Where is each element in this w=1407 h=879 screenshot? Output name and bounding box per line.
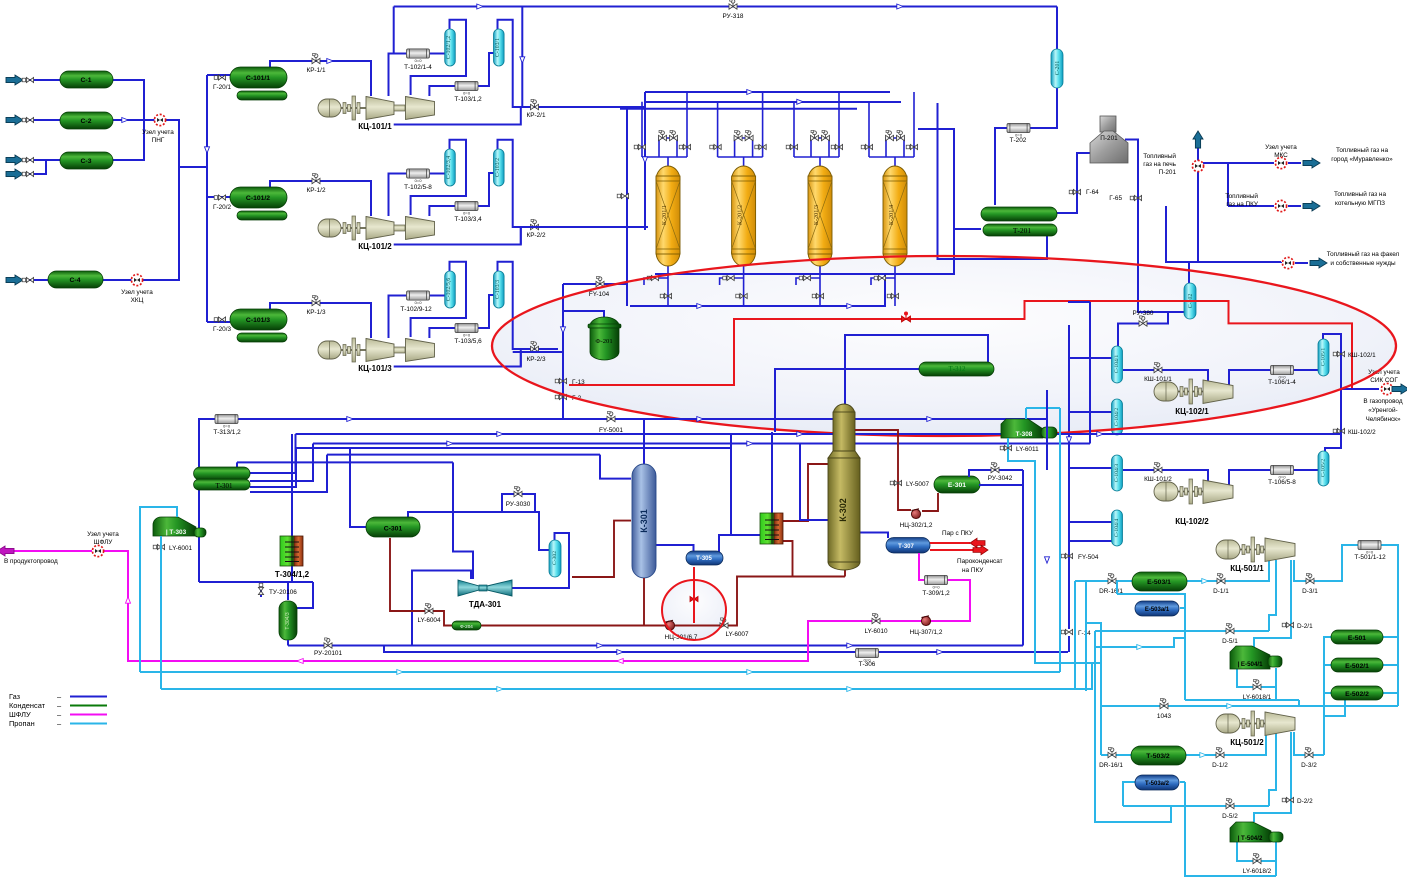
wire: Т-202 to Т-201 bbox=[995, 128, 1007, 205]
compressor КЦ-501/1 bbox=[1216, 537, 1295, 562]
wire: К-201 bottom bus bbox=[630, 129, 954, 306]
svg-text:Т-501/1-12: Т-501/1-12 bbox=[1354, 554, 1386, 561]
valve Г-2 bbox=[555, 394, 566, 399]
wire: steam from ПКУ (red) bbox=[930, 542, 970, 544]
svg-text:D-1/2: D-1/2 bbox=[1212, 762, 1228, 769]
vessel С-105/2 bbox=[1318, 451, 1329, 486]
svg-text:С-1: С-1 bbox=[81, 77, 92, 84]
wire: Е-501/Е-502 right collector bbox=[1383, 637, 1398, 693]
wire: long header L1 bbox=[198, 419, 1047, 582]
svg-text:С-101/3: С-101/3 bbox=[246, 317, 270, 324]
wire: C-4 outlet through ХКЦ meter bbox=[103, 167, 179, 280]
wire: С-202 bottom to РУ-380 bbox=[1118, 312, 1168, 346]
svg-text:| Е-504/1: | Е-504/1 bbox=[1237, 661, 1263, 668]
pump НЦ-302/1,2 bbox=[911, 509, 920, 519]
valve Г-14 bbox=[1061, 629, 1072, 634]
wire: ШФЛУ magenta run bbox=[12, 551, 970, 661]
heat exchanger Т-501/1-12 bbox=[1358, 540, 1381, 554]
check valve 3 bbox=[22, 157, 33, 162]
adsorber К-201/4 valve manifold bbox=[869, 92, 914, 167]
valve LY-6001 bbox=[153, 544, 164, 549]
vessel С-202 bbox=[1184, 283, 1196, 319]
svg-text:Т-102/5-8: Т-102/5-8 bbox=[404, 184, 432, 191]
wire: Т-304 block connections bbox=[199, 434, 313, 608]
svg-text:КР-1/2: КР-1/2 bbox=[307, 187, 326, 194]
wire: blue drop x1047 bbox=[1023, 390, 1047, 646]
wire: main top header РУ-318 bbox=[394, 7, 1057, 108]
svg-text:1043: 1043 bbox=[1157, 713, 1172, 720]
red valve in small ellipse bbox=[690, 595, 698, 603]
flow direction arrows bbox=[122, 4, 1233, 758]
svg-text:Т-304/3: Т-304/3 bbox=[285, 612, 291, 629]
wire: С-202 overhead fuel line bbox=[1166, 206, 1189, 283]
adsorber К-201/3 bottom piping bbox=[796, 265, 820, 306]
svg-text:С-103/1: С-103/1 bbox=[495, 38, 501, 57]
svg-text:Газ: Газ bbox=[9, 692, 21, 701]
svg-text:КШ-102/1: КШ-102/1 bbox=[1348, 352, 1376, 359]
adsorber column К-201/2 bbox=[732, 166, 756, 266]
compressor train 1: С-101/1, КЦ-101/1, Т-102/1-4, С-102/1,2, Т-103/1,2, С-103/1, КР-1/1, КР-2/1 bbox=[214, 20, 558, 125]
svg-text:Топливный: Топливный bbox=[1143, 152, 1176, 160]
svg-text:Г-20/2: Г-20/2 bbox=[213, 204, 231, 211]
svg-text:Т-503/2: Т-503/2 bbox=[1146, 753, 1170, 760]
check valve 4 bbox=[22, 171, 33, 176]
svg-text:Г-14: Г-14 bbox=[1078, 630, 1091, 637]
svg-text:Топливный газ на факел: Топливный газ на факел bbox=[1327, 250, 1400, 258]
valve Г-65 bbox=[1130, 195, 1141, 200]
svg-text:и собственные нужды: и собственные нужды bbox=[1330, 259, 1396, 267]
svg-text:«Уренгой-: «Уренгой- bbox=[1368, 406, 1397, 414]
arrow + text: fuel gas to flare and own needs bbox=[1310, 258, 1327, 268]
svg-text:Т-503а/2: Т-503а/2 bbox=[1145, 781, 1170, 787]
compressor КЦ-102/2 bbox=[1154, 479, 1233, 504]
svg-text:LY-6018/1: LY-6018/1 bbox=[1243, 694, 1272, 701]
svg-text:Т-201: Т-201 bbox=[1013, 226, 1032, 235]
wire: КЦ-102/1 discharge to Т-106/1-4 and С-105/1 bbox=[1229, 370, 1318, 385]
svg-text:Т-309/1,2: Т-309/1,2 bbox=[922, 590, 950, 597]
svg-text:КР-2/2: КР-2/2 bbox=[527, 232, 546, 239]
flow meter: fuel gas to ПКУ bbox=[1275, 200, 1286, 211]
compressor КЦ-102/1 bbox=[1154, 379, 1233, 404]
svg-text:Т-103/3,4: Т-103/3,4 bbox=[454, 216, 482, 223]
svg-text:Пар с ПКУ: Пар с ПКУ bbox=[942, 530, 974, 537]
heat exchanger Т-309/1,2 bbox=[925, 575, 948, 589]
adsorber column К-201/3 bbox=[808, 166, 832, 266]
svg-text:Т-102/9-12: Т-102/9-12 bbox=[400, 306, 432, 313]
tank Т-308 bbox=[1001, 419, 1043, 438]
tank Е-504/1 bbox=[1230, 646, 1270, 669]
wire: sales gas line СИК СОГ bbox=[1341, 388, 1398, 390]
separator C-4 bbox=[48, 271, 103, 288]
svg-text:Т-103/5,6: Т-103/5,6 bbox=[454, 338, 482, 345]
flow meter: fuel gas to П-201 furnace bbox=[1192, 160, 1203, 171]
wire: inlet line to C-4 bbox=[22, 279, 48, 281]
valve LY-6010 bbox=[872, 613, 880, 623]
flow meter Узел учета СИК СОГ bbox=[1381, 383, 1392, 394]
svg-text:Т-306: Т-306 bbox=[859, 661, 876, 668]
wire: КЦ-102/2 discharge to Т-106/5-8 and С-105/2 bbox=[1229, 470, 1318, 485]
svg-text:РУ-3042: РУ-3042 bbox=[988, 475, 1013, 482]
valve РУ-380 bbox=[1139, 316, 1147, 326]
svg-text:КЦ-102/2: КЦ-102/2 bbox=[1175, 517, 1209, 526]
condenser Е-502/2 bbox=[1331, 686, 1383, 700]
svg-text:газ на ПКУ: газ на ПКУ bbox=[1226, 201, 1259, 208]
wire: П-201 outlet down to С-202 bbox=[1125, 140, 1184, 313]
svg-text:D-5/2: D-5/2 bbox=[1222, 813, 1238, 820]
svg-text:С-104/3: С-104/3 bbox=[1114, 464, 1120, 483]
wire: С-301 bottoms to Ф-204 bbox=[390, 538, 452, 626]
wire: С-201 bottom to Т-202 bbox=[1030, 88, 1057, 128]
svg-text:Пароконденсат: Пароконденсат bbox=[957, 558, 1003, 565]
wire: РУ-20101 line bbox=[288, 640, 1023, 646]
wire: regeneration header bbox=[563, 109, 857, 306]
compressor train 3: С-101/3, КЦ-101/3, Т-102/9-12, С-102/5,6, Т-103/5,6, С-103/3, КР-1/3, КР-2/3 bbox=[214, 262, 558, 367]
wire: red regeneration gas line bbox=[569, 301, 1352, 389]
wire: КЦ-501/1 discharge drops bbox=[1180, 545, 1398, 706]
valve РУ-3030 bbox=[514, 486, 522, 496]
svg-text:Т-307: Т-307 bbox=[898, 544, 914, 550]
wire: long header L3 bbox=[296, 302, 1090, 455]
wire: Т-201 gas return to header bbox=[938, 103, 1048, 259]
svg-text:ШФЛУ: ШФЛУ bbox=[9, 710, 31, 719]
svg-text:Узел учета: Узел учета bbox=[121, 289, 153, 296]
svg-text:РУ-318: РУ-318 bbox=[723, 13, 744, 20]
svg-text:С-105/1: С-105/1 bbox=[1321, 348, 1327, 367]
valve DR-16/1 (stage 2) bbox=[1108, 747, 1116, 757]
wire: КЦ-501/2 discharge drops bbox=[1180, 732, 1324, 822]
valve LY-5007 bbox=[890, 480, 901, 485]
adsorber К-201/2 valve manifold bbox=[718, 92, 763, 167]
wire: inlet line to C-1 bbox=[22, 79, 60, 81]
svg-text:РУ-20101: РУ-20101 bbox=[314, 650, 343, 657]
plate exchanger Т-304/1,2 bbox=[280, 536, 303, 566]
wire: left propane rails bbox=[1086, 581, 1185, 822]
svg-text:город «Муравленко»: город «Муравленко» bbox=[1331, 156, 1393, 163]
wire: С-201 feed from top header bbox=[1056, 7, 1058, 50]
svg-text:С-201: С-201 bbox=[1055, 61, 1061, 76]
svg-text:С-2: С-2 bbox=[81, 118, 92, 125]
drum Т-301 (two shells) bbox=[194, 467, 250, 480]
svg-text:С-302: С-302 bbox=[552, 551, 558, 565]
separator C-1 bbox=[60, 71, 113, 88]
check valve 5 bbox=[22, 277, 33, 282]
heat exchanger Т-106/5-8 bbox=[1271, 465, 1294, 479]
svg-text:С-102/5,6: С-102/5,6 bbox=[446, 278, 452, 301]
valve КШ-102/1 bbox=[1333, 351, 1344, 356]
svg-text:С-105/2: С-105/2 bbox=[1321, 459, 1327, 478]
svg-text:Т-301: Т-301 bbox=[215, 482, 233, 490]
svg-text:LY-6011: LY-6011 bbox=[1016, 446, 1039, 453]
svg-text:LY-6001: LY-6001 bbox=[169, 545, 193, 552]
arrow + text: fuel gas to Муравленко bbox=[1303, 158, 1320, 168]
svg-text:Т-312: Т-312 bbox=[948, 365, 966, 373]
valve LY-6018/2 bbox=[1253, 853, 1261, 863]
svg-text:Т-305: Т-305 bbox=[696, 556, 712, 562]
big red ellipse outline bbox=[492, 256, 1396, 436]
svg-text:Г-20/3: Г-20/3 bbox=[213, 326, 231, 333]
adsorber column К-201/1 bbox=[656, 166, 680, 266]
drum Т-201 (two shells) bbox=[981, 207, 1057, 221]
adsorber К-201/1 valve manifold bbox=[642, 92, 687, 167]
wire: Е-504/1 bottom loop bbox=[1237, 668, 1276, 700]
drum Е-503а/1 bbox=[1135, 601, 1179, 616]
svg-text:FY-504: FY-504 bbox=[1078, 554, 1099, 561]
svg-text:Топливный: Топливный bbox=[1225, 192, 1258, 200]
small highlighted region fill (pump НЦ-301 ellipse) bbox=[662, 580, 726, 640]
wire: red bypass in НЦ-301 ellipse bbox=[693, 567, 695, 623]
drum Е-301 bbox=[934, 476, 980, 493]
wire: fuel gas to flare bbox=[1198, 262, 1308, 263]
check valve 2 bbox=[22, 117, 33, 122]
valve ТУ-20106 bbox=[258, 583, 263, 594]
tank Т-303 bbox=[153, 517, 196, 536]
wire: rail to FY-504 / Г-14 bbox=[1068, 550, 1070, 652]
svg-text:КЦ-501/2: КЦ-501/2 bbox=[1230, 738, 1264, 747]
wire: КЦ-102/1 suction bbox=[1123, 370, 1208, 383]
svg-text:В продуктопровод: В продуктопровод bbox=[4, 558, 58, 565]
condenser Е-502/1 bbox=[1331, 658, 1383, 672]
wire: fuel gas to МКС bbox=[1203, 163, 1301, 206]
svg-text:Е-301: Е-301 bbox=[948, 482, 966, 489]
svg-text:КЦ-101/2: КЦ-101/2 bbox=[358, 242, 392, 251]
svg-text:КЦ-101/3: КЦ-101/3 bbox=[358, 364, 392, 373]
valve КШ-101/1 bbox=[1154, 362, 1162, 372]
condenser Е-501 bbox=[1331, 630, 1383, 644]
wire: feed collector to С-101 separators bbox=[207, 75, 230, 322]
wire: fuel gas riser bbox=[1166, 146, 1198, 262]
wire: inlet lines to C-3 bbox=[22, 160, 60, 174]
valve РУ-3042 bbox=[991, 462, 999, 472]
adsorber К-201/2 bottom piping bbox=[720, 265, 744, 306]
svg-text:Топливный газ на: Топливный газ на bbox=[1334, 190, 1386, 198]
svg-text:DR-16/1: DR-16/1 bbox=[1099, 762, 1123, 769]
svg-text:D-3/1: D-3/1 bbox=[1302, 588, 1318, 595]
wire: y700 collector bbox=[1185, 700, 1299, 706]
svg-text:КЦ-102/1: КЦ-102/1 bbox=[1175, 407, 1209, 416]
svg-text:D-1/1: D-1/1 bbox=[1213, 588, 1229, 595]
svg-text:газ на печь: газ на печь bbox=[1143, 161, 1176, 168]
adsorber column К-201/4 bbox=[883, 166, 907, 266]
flow meter Узел учета ХКЦ bbox=[131, 274, 142, 285]
pump НЦ-307/1,2 bbox=[921, 616, 930, 626]
svg-text:LY-6007: LY-6007 bbox=[725, 631, 749, 638]
wire: C-3 outlet to collector bbox=[113, 120, 144, 160]
svg-text:D-3/2: D-3/2 bbox=[1301, 762, 1317, 769]
svg-text:Е-501: Е-501 bbox=[1348, 635, 1366, 642]
svg-text:Т-103/1,2: Т-103/1,2 bbox=[454, 96, 482, 103]
svg-text:Е-503а/1: Е-503а/1 bbox=[1145, 607, 1170, 613]
svg-text:С-301: С-301 bbox=[384, 526, 403, 533]
wire: КР-2 collector bbox=[513, 107, 648, 367]
wire: С-301 connections bbox=[350, 448, 551, 579]
wire: steam condensate to ПКУ (red) bbox=[930, 549, 973, 551]
vessel С-104/2 bbox=[1112, 399, 1123, 435]
inlet arrow 2 bbox=[6, 115, 23, 125]
valve КШ-101/2 bbox=[1154, 462, 1162, 472]
svg-text:ПНГ: ПНГ bbox=[152, 137, 165, 144]
wire: Ф-201 circuit and Г-13/Г-2 drop bbox=[543, 284, 604, 419]
svg-text:С-4: С-4 bbox=[70, 277, 81, 284]
separator С-301 bbox=[366, 517, 420, 537]
compressor train 2: С-101/2, КЦ-101/2, Т-102/5-8, С-102/3,4, Т-103/3,4, С-103/2, КР-1/2, КР-2/2 bbox=[214, 140, 558, 245]
valve РУ-318 bbox=[729, 0, 737, 9]
valve 1043 bbox=[1160, 698, 1168, 708]
vessel С-105/1 bbox=[1318, 339, 1329, 376]
evaporator Т-503/2 bbox=[1131, 746, 1186, 765]
valve РУ-20101 bbox=[324, 638, 332, 648]
wire: Т-308 cyan circuit bbox=[1026, 408, 1060, 672]
flow meter Узел учета ПНГ bbox=[154, 114, 165, 125]
drum Т-312 bbox=[919, 362, 994, 376]
svg-text:ТДА-301: ТДА-301 bbox=[469, 600, 502, 609]
inlet arrow 1 bbox=[6, 75, 23, 85]
wire: К-302 overhead to Т-312 bbox=[775, 335, 988, 432]
column К-302 (two sections) bbox=[833, 404, 855, 415]
wire: blue return y652 bbox=[384, 646, 1068, 653]
wire: cyan propane bus 2 bbox=[161, 536, 1092, 689]
svg-text:ТУ-20106: ТУ-20106 bbox=[269, 589, 297, 596]
wire: cyan propane bus 1 bbox=[140, 507, 1060, 672]
wire: К-301 feed bbox=[600, 455, 631, 479]
vessel Т-304/3 bbox=[279, 601, 297, 640]
svg-text:LY-6018/2: LY-6018/2 bbox=[1243, 868, 1272, 875]
vessel С-104/3 bbox=[1112, 455, 1123, 491]
wire: Е-301 overhead bbox=[969, 470, 1023, 485]
svg-text:ШФЛУ: ШФЛУ bbox=[94, 539, 114, 546]
valve DR-16/1 bbox=[1108, 573, 1116, 583]
svg-text:Топливный газ на: Топливный газ на bbox=[1336, 146, 1388, 154]
svg-text:Г-20/1: Г-20/1 bbox=[213, 84, 231, 91]
drum Т-305 bbox=[686, 551, 723, 565]
heat exchanger Т-202 bbox=[1007, 123, 1030, 137]
heat exchanger Т-306 bbox=[856, 648, 879, 662]
turboexpander ТДА-301 bbox=[458, 580, 479, 596]
valve FY-104 bbox=[596, 276, 604, 286]
wire: К-301 bottoms dark red bus bbox=[481, 464, 845, 626]
wire: propane suction КЦ-501/2 bbox=[1101, 732, 1266, 755]
wire: Т-201 outlet to Г-64 and П-201 bbox=[1056, 153, 1090, 213]
svg-text:Ф-204: Ф-204 bbox=[460, 624, 473, 629]
svg-text:Т-304/1,2: Т-304/1,2 bbox=[275, 570, 310, 579]
svg-text:КР-1/1: КР-1/1 bbox=[307, 67, 326, 74]
valve LY-6004 bbox=[425, 603, 433, 613]
svg-text:Узел учета: Узел учета bbox=[1265, 144, 1297, 151]
svg-text:КР-2/3: КР-2/3 bbox=[527, 356, 546, 363]
valve LY-6007 bbox=[720, 618, 728, 628]
svg-text:Узел учета: Узел учета bbox=[142, 129, 174, 136]
svg-text:К-302: К-302 bbox=[838, 498, 848, 522]
vessel С-104/1 bbox=[1112, 346, 1123, 383]
filter Ф-201 bbox=[590, 317, 619, 326]
adsorber К-201/3 valve manifold bbox=[794, 92, 839, 167]
heat exchanger Т-106/1-4 bbox=[1271, 365, 1294, 379]
vessel С-302 bbox=[549, 540, 561, 577]
svg-text:Г-64: Г-64 bbox=[1086, 189, 1099, 196]
svg-text:LY-6004: LY-6004 bbox=[417, 617, 441, 624]
arrow: ШФЛУ to product pipeline (magenta) bbox=[0, 546, 14, 556]
svg-text:Е-502/1: Е-502/1 bbox=[1345, 663, 1369, 670]
wire: КЦ-102/2 suction bbox=[1123, 470, 1208, 483]
svg-text:Узел учета: Узел учета bbox=[87, 531, 119, 538]
svg-text:FY-5001: FY-5001 bbox=[599, 427, 623, 434]
svg-text:Е-503/1: Е-503/1 bbox=[1147, 579, 1171, 586]
svg-text:С-3: С-3 bbox=[81, 158, 92, 165]
svg-text:котельную МГПЗ: котельную МГПЗ bbox=[1335, 200, 1385, 207]
separator C-2 bbox=[60, 112, 113, 129]
drum Т-503а/2 bbox=[1135, 775, 1179, 790]
svg-text:НЦ-302/1,2: НЦ-302/1,2 bbox=[900, 522, 933, 529]
svg-text:| Т-303: | Т-303 bbox=[166, 529, 187, 536]
inlet arrow 3 bbox=[6, 155, 23, 165]
svg-text:П-201: П-201 bbox=[1100, 135, 1118, 142]
wire: 1043 line bbox=[1101, 705, 1398, 707]
vessel С-201 bbox=[1051, 49, 1063, 88]
arrow + text: fuel gas to МГПЗ boiler bbox=[1303, 201, 1320, 211]
svg-text:D-2/2: D-2/2 bbox=[1297, 798, 1313, 805]
drum Т-307 bbox=[886, 538, 930, 554]
adsorber К-201/1 bottom piping bbox=[644, 265, 668, 306]
arrow: МКС vent up bbox=[1193, 131, 1203, 148]
separator C-3 bbox=[60, 152, 113, 169]
valve D-1/1 bbox=[1217, 573, 1225, 583]
valve Г-13 bbox=[555, 378, 566, 383]
wire: plate exchanger 2 top bbox=[771, 432, 773, 513]
svg-text:| Т-504/2: | Т-504/2 bbox=[1238, 835, 1263, 842]
svg-text:Ф-201: Ф-201 bbox=[595, 338, 612, 345]
svg-text:В газопровод: В газопровод bbox=[1363, 398, 1402, 405]
flow meter Узел учета МКС bbox=[1275, 157, 1286, 168]
valve D-3/1 bbox=[1306, 573, 1314, 583]
svg-text:Т-308: Т-308 bbox=[1016, 431, 1033, 438]
svg-text:D-2/1: D-2/1 bbox=[1297, 623, 1313, 630]
svg-text:С-104/1: С-104/1 bbox=[1114, 355, 1120, 374]
wire: К-302 reflux dark red to Е-301 bbox=[855, 430, 938, 511]
svg-text:КЦ-501/1: КЦ-501/1 bbox=[1230, 564, 1264, 573]
svg-text:К-201/2: К-201/2 bbox=[737, 205, 744, 225]
big highlighted region fill (inside red ellipse) bbox=[492, 256, 1396, 436]
inlet arrow 4 bbox=[6, 169, 23, 179]
svg-text:С-103/3: С-103/3 bbox=[495, 280, 501, 299]
column К-301 bbox=[632, 464, 656, 578]
adsorber К-201/4 bottom piping bbox=[871, 265, 895, 306]
valve FY-5001 bbox=[607, 411, 615, 421]
wire: С-104 feed rail bbox=[1069, 325, 1112, 550]
check valve 1 bbox=[22, 77, 33, 82]
wire: Т-201 feed bbox=[954, 228, 981, 230]
plate exchanger (К-302 feed/bottoms) bbox=[760, 513, 783, 544]
valve D-5/1 bbox=[1226, 623, 1234, 633]
evaporator Е-503/1 bbox=[1132, 572, 1187, 591]
svg-text:КЦ-101/1: КЦ-101/1 bbox=[358, 122, 392, 131]
svg-text:LY-6010: LY-6010 bbox=[864, 628, 888, 635]
wire: Т-503а/2 loops bbox=[1123, 782, 1276, 876]
flow meter: fuel gas to flare bbox=[1282, 257, 1293, 268]
filter Ф-204 bbox=[452, 621, 481, 630]
wire: С-302 bottom to ТДА-301 bbox=[412, 533, 569, 646]
svg-text:Пропан: Пропан bbox=[9, 719, 35, 728]
svg-text:С-102/1,2: С-102/1,2 bbox=[446, 36, 452, 59]
valve D-2/1 bbox=[1282, 622, 1293, 627]
svg-text:С-104/2: С-104/2 bbox=[1114, 408, 1120, 427]
small red ellipse outline bbox=[662, 580, 726, 640]
wire: Е-501/Е-502 left stubs bbox=[1324, 637, 1345, 755]
svg-text:Т-106/5-8: Т-106/5-8 bbox=[1268, 479, 1296, 486]
svg-text:МКС: МКС bbox=[1274, 152, 1288, 159]
svg-text:Г-65: Г-65 bbox=[1109, 195, 1122, 202]
svg-text:Конденсат: Конденсат bbox=[9, 701, 46, 710]
valve D-5/2 bbox=[1226, 798, 1234, 808]
svg-text:С-102/3,4: С-102/3,4 bbox=[446, 156, 452, 179]
